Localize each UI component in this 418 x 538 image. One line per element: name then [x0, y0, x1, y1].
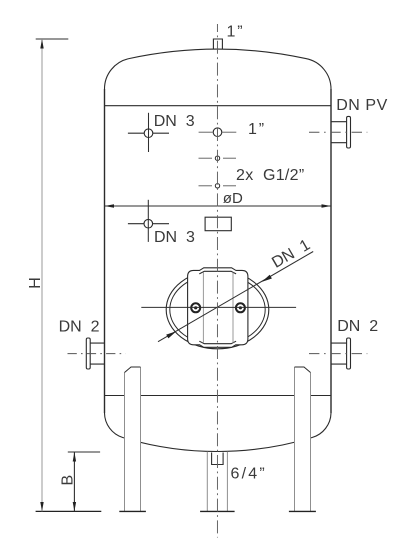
H bottom arrowhead: [40, 502, 43, 511]
DN 2 left centerline: [68, 353, 126, 355]
DN 3 lower nozzle symbol: [128, 200, 169, 242]
svg-text:DN 3: DN 3: [154, 113, 195, 130]
svg-text:DN PV: DN PV: [336, 97, 388, 114]
DN PV nozzle pipe: [331, 122, 347, 143]
ground reference line under dimensions: [36, 510, 102, 512]
svg-text:2x G1/2”: 2x G1/2”: [236, 167, 305, 184]
H dimension line: [41, 39, 43, 511]
nameplate rectangle: [205, 217, 231, 231]
right strap inner edge: [232, 273, 234, 343]
center bottom pedestal: [207, 452, 227, 512]
DN 1 lower arrowhead: [166, 331, 176, 338]
diameter D dimension line: [105, 205, 332, 207]
manhole cover bridge plate: [199, 268, 236, 348]
manhole inner ellipse: [170, 274, 265, 345]
top 1 inch nozzle: [213, 39, 222, 49]
right support leg: [295, 367, 311, 511]
diameter D right arrowhead: [322, 204, 332, 207]
manhole horizontal axis line: [141, 306, 296, 308]
vessel shell left wall: [104, 89, 106, 413]
vessel shell right wall: [330, 89, 332, 413]
svg-text:1”: 1”: [227, 24, 245, 41]
top head tangent weld line: [105, 105, 332, 107]
H dimension top extension line: [36, 38, 69, 40]
B top arrowhead: [73, 452, 76, 462]
svg-text:øD: øD: [223, 190, 243, 207]
svg-text:DN 2: DN 2: [59, 318, 100, 335]
svg-text:6/4”: 6/4”: [231, 466, 267, 483]
top dished head: [104, 49, 331, 89]
left strap inner edge: [202, 273, 204, 343]
svg-text:1”: 1”: [248, 121, 266, 138]
left strap outline: [188, 270, 200, 344]
DN 2 right flange: [347, 338, 351, 369]
svg-text:DN 3: DN 3: [154, 229, 195, 246]
diameter D left arrowhead: [105, 204, 115, 207]
svg-text:DN 1: DN 1: [269, 236, 313, 271]
manhole right bolt: [236, 303, 245, 312]
DN 2 right nozzle pipe: [331, 343, 347, 364]
pedestal base line: [200, 510, 235, 512]
manhole left bolt: [191, 303, 200, 312]
left support leg: [125, 367, 141, 511]
6/4 inch bottom nozzle: [212, 453, 224, 465]
manhole outer ellipse: [166, 270, 269, 348]
manhole cover right strap: [233, 270, 248, 344]
H top arrowhead: [40, 39, 43, 49]
DN 2 right centerline: [309, 353, 367, 355]
vertical centerline: [216, 24, 218, 538]
DN 1 diagonal leader line: [158, 252, 313, 342]
right leg foot line: [289, 510, 316, 512]
DN 1 upper arrowhead: [262, 275, 272, 282]
left leg foot line: [119, 510, 146, 512]
DN PV flange: [347, 116, 351, 148]
B dimension top extension line: [68, 451, 100, 453]
svg-text:DN 2: DN 2: [337, 318, 378, 335]
DN 2 left flange: [86, 338, 90, 369]
manhole cover left strap: [188, 270, 204, 344]
DN 2 left nozzle pipe: [90, 343, 104, 364]
DN 3 upper nozzle symbol: [128, 113, 169, 152]
bridge top doubled edge: [199, 268, 236, 274]
G1/2 lower coupling: [199, 184, 237, 188]
svg-text:H: H: [27, 277, 44, 289]
bottom head tangent weld line: [105, 395, 332, 397]
G1/2 upper coupling: [199, 156, 237, 160]
B dimension line: [73, 452, 75, 511]
B bottom arrowhead: [73, 502, 76, 511]
DN PV centerline: [309, 131, 367, 133]
svg-text:B: B: [59, 475, 76, 486]
1 inch centre nozzle symbol: [199, 128, 237, 137]
bridge bottom doubled edge: [199, 341, 236, 347]
right strap outline: [236, 270, 248, 344]
bottom dished head: [105, 413, 332, 452]
